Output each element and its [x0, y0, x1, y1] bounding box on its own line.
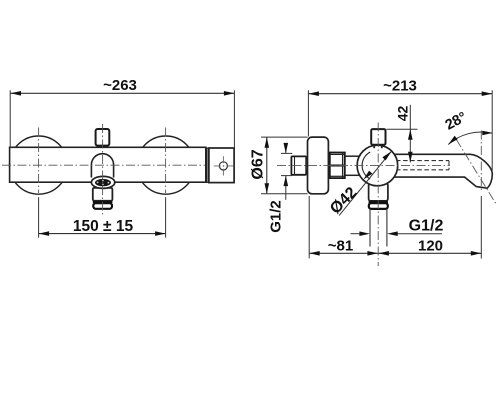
wall bracket [209, 148, 234, 183]
svg-text:150 ± 15: 150 ± 15 [73, 218, 134, 235]
spout end ring [93, 203, 112, 209]
spout (side) [394, 154, 492, 188]
aerator dark mesh [95, 179, 111, 186]
handle (side) [371, 129, 385, 145]
right circle centerline vertical [165, 128, 167, 194]
right escutcheon circle [137, 136, 195, 194]
dimension 150 ± 15 [39, 197, 166, 237]
svg-text:42: 42 [395, 106, 411, 122]
escutcheon (side) [308, 137, 329, 194]
handle (front view) [96, 129, 110, 146]
handle neck [100, 146, 106, 148]
vertical centerline outlet [377, 123, 379, 267]
outlet tube (side) [370, 209, 387, 246]
tilted spout axis [456, 139, 496, 204]
svg-text:~213: ~213 [383, 78, 417, 95]
horizontal centerline right view [277, 164, 450, 166]
dimension G1/2 outlet [351, 218, 444, 237]
outlet ring (side) [369, 203, 388, 209]
horizontal centerline left view [2, 164, 206, 166]
mixer bar body [10, 147, 206, 182]
spout hidden channel (dashed) [396, 161, 449, 170]
wall fitting inner line [294, 157, 296, 175]
dimension ~213 [308, 78, 492, 171]
left escutcheon circle [9, 136, 67, 194]
svg-text:Ø67: Ø67 [250, 149, 267, 179]
outlet cylinder (side) [369, 183, 388, 201]
dimension 28 degrees [443, 109, 493, 144]
mixer body circle [357, 145, 398, 186]
wall fitting block [291, 156, 306, 174]
outlet black band (side) [369, 201, 388, 203]
spout black band [93, 201, 113, 203]
washer [306, 160, 308, 170]
dimension Ø67 [250, 137, 308, 194]
svg-text:120: 120 [418, 238, 443, 255]
spout dome [91, 154, 113, 178]
hex nut [330, 153, 345, 179]
dimension G1/2 wall thread [268, 143, 293, 233]
neck between nut and body [345, 156, 360, 175]
dimension ~263 [10, 77, 234, 148]
spout centerline vertical [102, 124, 104, 216]
vertical reference axis at spout tip [480, 131, 482, 193]
svg-text:~263: ~263 [103, 77, 137, 94]
gap strip between bar and bracket [207, 148, 209, 182]
svg-text:G1/2: G1/2 [268, 200, 285, 233]
bracket screw hole [214, 156, 234, 175]
dimensions ~81 and 120 [309, 196, 481, 259]
dimension 42 (handle height) [387, 105, 418, 163]
left circle centerline vertical [38, 128, 40, 194]
spout outlet cylinder [93, 188, 113, 201]
aerator outer ellipse [91, 176, 114, 188]
dimension Ø42 [327, 151, 391, 217]
svg-text:G1/2: G1/2 [409, 218, 444, 235]
svg-text:~81: ~81 [328, 238, 353, 255]
body inner crescent [362, 152, 370, 179]
handle neck (side) [374, 145, 382, 149]
